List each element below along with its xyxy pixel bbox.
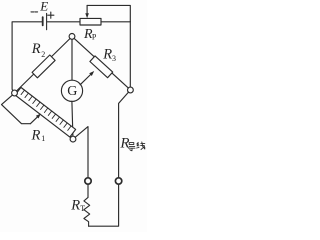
- wire: left terminal to RT: [87, 184, 89, 197]
- svg-text:P: P: [92, 32, 97, 41]
- R1 wiper arrow: [30, 114, 40, 124]
- svg-text:T: T: [80, 204, 85, 213]
- svg-text:2: 2: [41, 50, 45, 59]
- wire: top node to galvanometer: [71, 39, 73, 80]
- label R2: [31, 41, 45, 59]
- label R1: [31, 127, 46, 143]
- svg-text:R: R: [119, 136, 129, 152]
- wire: RP wiper loop: [87, 5, 130, 21]
- label G: [67, 84, 77, 99]
- R1 wiper arm wire: [2, 95, 31, 124]
- node: right: [127, 87, 133, 93]
- label minus polarity: [31, 11, 38, 13]
- svg-text:1: 1: [41, 134, 45, 143]
- thermistor RT zigzag: [84, 197, 90, 226]
- label RP: [83, 27, 97, 42]
- svg-text:R: R: [102, 46, 112, 62]
- battery E: [43, 13, 47, 29]
- node: top (bridge apex): [69, 34, 75, 40]
- resistor R3 (with connecting wires to top and right nodes): [74, 38, 128, 88]
- wire: right node to right terminal: [119, 92, 129, 178]
- svg-text:R: R: [70, 198, 80, 214]
- node: bottom: [70, 136, 76, 142]
- svg-text:3: 3: [112, 54, 116, 63]
- wire: RP down to right node: [129, 22, 131, 87]
- wire: battery negative to left node (top-left corner run): [12, 22, 42, 91]
- slide rheostat R1: [15, 87, 76, 137]
- svg-text:G: G: [67, 84, 77, 99]
- wire: RP right end to right branch: [101, 21, 130, 23]
- label RT: [70, 198, 85, 214]
- galvanometer G: [61, 80, 82, 101]
- potentiometer RP: [80, 5, 101, 25]
- svg-text:E: E: [39, 0, 48, 13]
- label E: [39, 0, 48, 13]
- terminal: left binding post: [85, 178, 91, 184]
- label R lead-wire (R导线): [119, 136, 129, 152]
- label R3: [102, 46, 116, 63]
- wire: battery positive to RP: [47, 21, 80, 23]
- wire: galvanometer to bottom node: [72, 101, 73, 136]
- resistor R2 (with connecting wires to left and top nodes): [17, 39, 70, 91]
- wire: bottom node to left terminal: [75, 127, 88, 178]
- wire: bottom return to right terminal: [89, 184, 119, 226]
- label plus polarity: [48, 12, 54, 18]
- terminal: right binding post: [115, 178, 121, 184]
- svg-text:R: R: [31, 127, 41, 143]
- galvanometer pointer arrow: [80, 71, 94, 85]
- label 线 glyph: [137, 142, 145, 150]
- label 导 glyph: [129, 143, 135, 151]
- svg-text:R: R: [31, 41, 41, 57]
- node: left: [12, 90, 18, 96]
